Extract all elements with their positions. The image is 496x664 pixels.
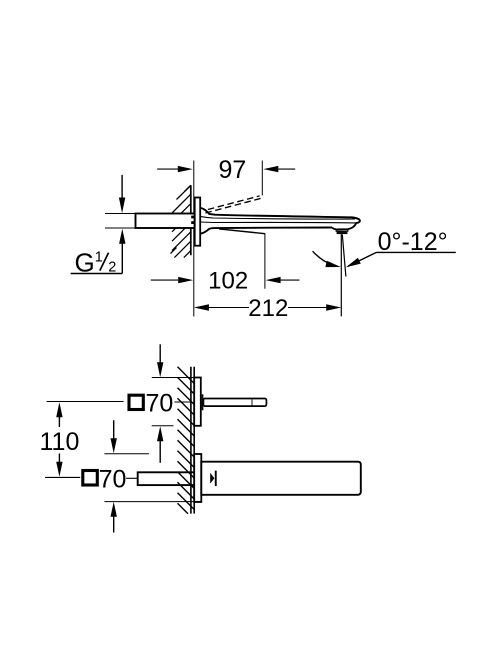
svg-text:212: 212 xyxy=(248,295,288,322)
wall line (side view) xyxy=(190,185,192,255)
extension line right of 97 xyxy=(261,161,263,196)
svg-text:0°-12°: 0°-12° xyxy=(378,228,448,256)
spout (side view) xyxy=(201,208,360,234)
extension line 102 right xyxy=(264,234,266,289)
wall hatching (top view) xyxy=(178,367,195,514)
dimension 97 xyxy=(157,156,295,184)
escutcheon lower (top view) xyxy=(194,454,201,502)
svg-text:1: 1 xyxy=(95,249,103,265)
lever handle (top view) xyxy=(203,399,266,407)
dim 110 xyxy=(40,402,81,477)
escutcheon upper (top view) xyxy=(194,378,201,426)
pipe wall marks xyxy=(191,216,194,219)
wall lines (top view) xyxy=(190,367,192,514)
brand mark on spout xyxy=(210,473,214,484)
label square 70 upper xyxy=(47,390,192,418)
label G 1/2 xyxy=(71,229,126,278)
dim upper 70: top arrow xyxy=(159,344,161,363)
dim upper 70: bottom arrow xyxy=(157,426,163,441)
swivel arc xyxy=(313,251,335,266)
stream tilted (12 deg) xyxy=(342,235,346,277)
extension line left (97/102/212) xyxy=(193,161,195,317)
spout raised position (dashed) xyxy=(205,198,262,213)
dim lower 70: bottom arrow xyxy=(111,502,117,517)
dimension 102 xyxy=(151,268,300,295)
supply pipe (side view) xyxy=(136,214,195,229)
dim lower 70: top arrow xyxy=(113,420,115,439)
svg-text:70: 70 xyxy=(99,466,127,494)
dimension 212 xyxy=(194,295,341,322)
label square 70 lower xyxy=(83,466,138,494)
supply pipe (top view) xyxy=(138,472,196,485)
ext lines lower plate xyxy=(104,453,148,455)
escutcheon plate (side view) xyxy=(195,198,201,246)
spout body (top view) xyxy=(201,462,360,495)
wall hatching (side view) xyxy=(171,185,191,257)
svg-text:70: 70 xyxy=(146,390,174,418)
spout tip xyxy=(332,217,360,229)
svg-text:102: 102 xyxy=(208,268,248,295)
stream vertical (0 deg) xyxy=(340,234,342,316)
svg-text:110: 110 xyxy=(40,428,80,456)
leader 0-12 xyxy=(348,252,456,266)
pipe extension lines xyxy=(105,213,136,215)
aerator dark band xyxy=(337,231,348,234)
lever hub xyxy=(201,394,204,410)
pipe diameter arrow top xyxy=(121,175,123,199)
ext lines upper plate xyxy=(152,377,201,379)
svg-text:97: 97 xyxy=(218,156,246,184)
